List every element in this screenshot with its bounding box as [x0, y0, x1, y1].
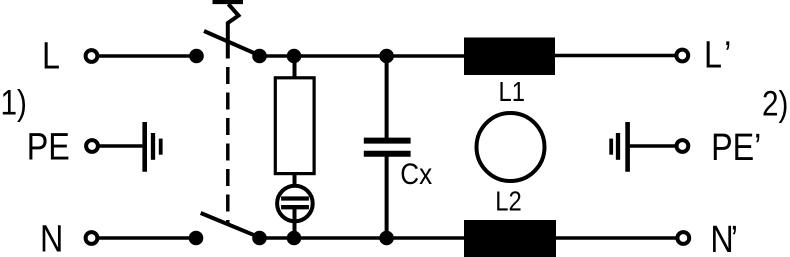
- ground (left PE), tall bar: [142, 122, 147, 172]
- choke winding L2 (black box): [464, 220, 556, 257]
- node: junction L / resistor branch: [287, 49, 302, 64]
- resistor R body: [275, 78, 314, 174]
- svg-text:N’: N’: [710, 219, 738, 257]
- switch mechanical linkage (dashed): [226, 67, 230, 224]
- switch S1 blade (L pole, open): [204, 31, 260, 56]
- ground (right PE'), short bar: [609, 139, 613, 155]
- svg-text:2): 2): [762, 84, 788, 123]
- svg-text:1): 1): [1, 83, 27, 122]
- surge arrester F1 lead (rect to tube): [293, 174, 297, 199]
- node: L switch right contact: [252, 49, 267, 64]
- ground (right PE'), middle bar: [616, 133, 620, 160]
- node: junction N / resistor branch: [287, 231, 302, 246]
- node: N switch right contact: [252, 231, 267, 246]
- terminal PE' (open circle): [677, 140, 689, 152]
- wire N switch to choke: [260, 236, 465, 240]
- ground (right PE'), tall bar: [625, 122, 630, 172]
- switch actuator spring zigzag: [228, 4, 239, 59]
- svg-text:L: L: [42, 35, 60, 77]
- surge arrester F1 (gas discharge tube) circle: [277, 186, 313, 222]
- node: junction N / Cx branch: [379, 231, 394, 246]
- wire choke L2 to N' terminal: [556, 236, 677, 240]
- capacitor Cx lead (top): [385, 56, 389, 141]
- wire N terminal to switch contact: [97, 236, 196, 240]
- terminal N' (open circle): [677, 232, 689, 244]
- choke core circle: [477, 113, 545, 181]
- wire choke L1 to L' terminal: [555, 54, 676, 58]
- wire L terminal to switch contact: [97, 54, 196, 58]
- choke winding L1 (black box): [464, 38, 555, 76]
- wire PE terminal to ground: [98, 144, 142, 148]
- svg-text:Cx: Cx: [400, 157, 432, 190]
- capacitor Cx bottom plate: [364, 151, 411, 157]
- capacitor Cx lead (bottom): [385, 154, 389, 238]
- terminal PE (open circle): [86, 140, 98, 152]
- ground (left PE), short bar: [159, 139, 163, 155]
- switch actuator T-bar: [213, 0, 244, 4]
- node: junction L / Cx branch: [379, 49, 394, 64]
- terminal L' (open circle): [676, 50, 688, 62]
- svg-text:L1: L1: [499, 75, 525, 107]
- node: N switch left contact: [189, 231, 204, 246]
- wire ground to PE' terminal: [630, 144, 677, 148]
- terminal N (open circle): [86, 232, 98, 244]
- switch S1 blade (N pole, open): [201, 213, 260, 238]
- svg-text:L2: L2: [495, 185, 521, 217]
- capacitor Cx top plate: [364, 138, 411, 144]
- wire L switch to choke: [260, 54, 465, 58]
- surge arrester lead (bottom to N wire): [293, 207, 297, 238]
- surge arrester electrode top bar: [281, 196, 309, 200]
- surge arrester electrode bottom bar: [281, 205, 309, 209]
- svg-text:L’: L’: [704, 34, 731, 76]
- resistor R lead (top): [293, 56, 297, 78]
- svg-text:PE: PE: [27, 126, 70, 168]
- svg-text:PE’: PE’: [711, 127, 761, 169]
- svg-text:N: N: [40, 218, 63, 257]
- terminal L (open circle): [86, 50, 98, 62]
- ground (left PE), middle bar: [151, 133, 155, 160]
- node: L switch left contact: [189, 49, 204, 64]
